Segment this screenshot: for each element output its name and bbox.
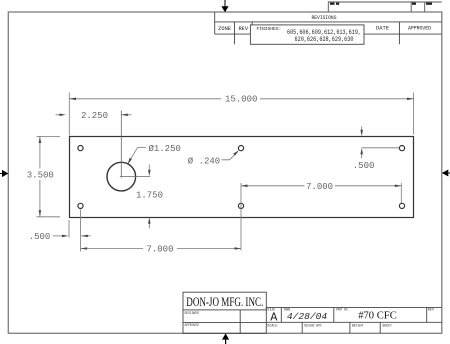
svg-text:PART NO.: PART NO.: [336, 308, 349, 312]
border center mark arrow, right: [442, 170, 450, 177]
large hole (1.250 dia): [107, 162, 136, 191]
svg-text:#70 CFC: #70 CFC: [358, 310, 397, 321]
revisions table column headers: [218, 26, 431, 32]
top margin strip with zone boxes: [328, 2, 442, 12]
svg-text:2.250: 2.250: [81, 111, 108, 121]
svg-text:.500: .500: [353, 161, 375, 171]
hole top-middle: [238, 146, 243, 151]
dimension 7.000 (upper, middle hole to right hole): [241, 182, 401, 251]
svg-text:1.750: 1.750: [136, 191, 163, 201]
dimension 3.500 (overall height): [27, 136, 60, 216]
hole bottom-middle: [238, 203, 243, 208]
hole bottom-left: [78, 203, 83, 208]
dimension 1.750 (large hole center to bottom edge): [136, 165, 163, 229]
svg-text:SHEET: SHEET: [382, 325, 392, 329]
hole bottom-right: [399, 203, 404, 208]
revisions table grid: [215, 12, 442, 44]
svg-text:7.000: 7.000: [306, 182, 333, 192]
svg-text:APPROVED: APPROVED: [185, 324, 200, 328]
svg-text:DATE: DATE: [376, 26, 389, 32]
title block small labels: [185, 308, 435, 328]
svg-text:605,606,609,612,613,619,: 605,606,609,612,613,619,: [287, 29, 361, 36]
dimension 7.000 (lower, left hole to middle hole): [81, 245, 241, 255]
svg-text:DESIGNER: DESIGNER: [185, 312, 200, 316]
leader callout dia 1.250 (large hole): [128, 144, 181, 164]
leader callout dia .240 (small holes): [188, 150, 239, 166]
svg-text:Ø .240: Ø .240: [188, 156, 220, 166]
border center mark arrow, bottom: [222, 333, 229, 344]
dimension 15.000 (overall width): [69, 93, 413, 136]
svg-text:RELEASE DATE: RELEASE DATE: [304, 325, 322, 329]
svg-text:.500: .500: [29, 232, 51, 242]
hole top-right: [399, 146, 404, 151]
title block grid: [183, 292, 442, 333]
svg-text:WEIGHT: WEIGHT: [352, 325, 364, 329]
finishes note box: [250, 25, 364, 44]
border center mark arrow, left: [0, 170, 8, 177]
dimension 2.250 (left edge to large hole): [56, 111, 132, 121]
dimension .500 (left edge to first hole): [29, 210, 91, 252]
svg-text:3.500: 3.500: [27, 171, 54, 181]
svg-text:DON-JO MFG. INC.: DON-JO MFG. INC.: [186, 295, 263, 309]
svg-text:REV: REV: [428, 308, 435, 312]
svg-text:15.000: 15.000: [225, 95, 257, 105]
svg-text:4/28/04: 4/28/04: [287, 311, 328, 322]
dimension .500 (top edge to top-right hole): [353, 127, 400, 172]
hole top-left: [78, 146, 83, 151]
svg-text:FINISHES:: FINISHES:: [257, 26, 282, 32]
svg-text:ZONE: ZONE: [218, 26, 231, 32]
svg-text:APPROVED: APPROVED: [408, 26, 431, 32]
svg-text:REV: REV: [238, 26, 248, 32]
svg-text:A: A: [270, 311, 278, 325]
large hole centerlines: [120, 111, 150, 178]
svg-text:SCALE: SCALE: [267, 325, 277, 329]
svg-text:REVISIONS: REVISIONS: [312, 15, 337, 21]
plate outline: [70, 137, 414, 218]
svg-text:Ø1.250: Ø1.250: [148, 144, 180, 154]
border center mark arrow, top: [221, 0, 228, 12]
svg-text:7.000: 7.000: [146, 245, 173, 255]
svg-text:620,626,628,629,630: 620,626,628,629,630: [295, 36, 354, 43]
